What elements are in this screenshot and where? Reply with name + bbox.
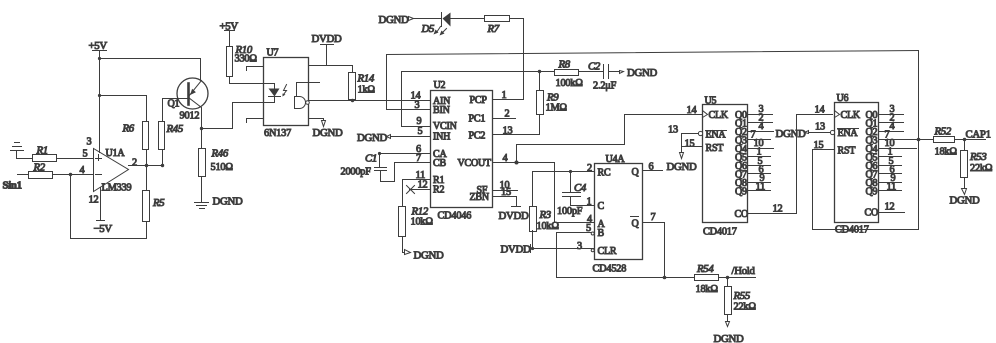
svg-text:12: 12 — [773, 204, 783, 215]
wire D5 to R7 — [451, 18, 485, 20]
pin stub Q4 — [748, 148, 774, 150]
node R14 output — [351, 99, 354, 102]
pin stub Q2 to DGND — [748, 131, 774, 133]
svg-text:C1: C1 — [365, 153, 377, 165]
svg-text:VCOUT: VCOUT — [458, 158, 492, 169]
svg-text:13: 13 — [815, 122, 825, 133]
wire +5V rail to Q1 emitter — [100, 59, 201, 81]
svg-text:U4A: U4A — [606, 154, 626, 165]
svg-text:R7: R7 — [487, 23, 500, 35]
svg-text:3: 3 — [577, 241, 582, 252]
svg-text:22kΩ: 22kΩ — [734, 302, 757, 313]
op-amp U1A — [94, 148, 132, 194]
svg-text:DGND: DGND — [776, 128, 806, 140]
svg-text:DGND: DGND — [667, 161, 697, 173]
node R53 junction — [963, 138, 966, 141]
svg-text:PC2: PC2 — [469, 131, 486, 142]
wire opto GND pin — [309, 118, 324, 120]
wire +5V down to pin3 — [99, 51, 101, 153]
pin stub Q5 — [748, 156, 771, 158]
svg-text:CLK: CLK — [841, 110, 861, 121]
ground DGND at R12 — [403, 250, 444, 262]
svg-text:3: 3 — [87, 137, 92, 148]
node +5V emitter branch — [98, 57, 101, 60]
svg-text:DVDD: DVDD — [312, 33, 342, 45]
svg-text:11: 11 — [887, 182, 897, 193]
svg-text:18kΩ: 18kΩ — [935, 147, 958, 158]
pin stub Q9 U6 — [879, 190, 902, 192]
svg-text:100kΩ: 100kΩ — [556, 78, 584, 89]
pin stub enable right — [309, 82, 320, 84]
wire right side down to RST loop — [813, 51, 919, 230]
wire down to BIN — [387, 55, 431, 110]
svg-text:CO: CO — [735, 209, 749, 220]
wire A input from VCOUT — [555, 222, 595, 224]
svg-text:Sin1: Sin1 — [3, 180, 22, 192]
resistor R6 — [122, 122, 149, 150]
svg-text:R46: R46 — [211, 148, 229, 160]
svg-text:15: 15 — [685, 139, 695, 150]
wire DGND to D5 — [414, 18, 442, 20]
svg-text:CAP1: CAP1 — [966, 129, 991, 141]
svg-text:R3: R3 — [539, 209, 552, 221]
wire ENA RST to ground — [682, 134, 703, 153]
wire R54 to Hold — [719, 277, 756, 279]
svg-text:LM339: LM339 — [102, 183, 132, 194]
wire R10 to opto anode — [230, 77, 264, 84]
wire Qbar down to hold net — [643, 223, 665, 278]
svg-text:DGND: DGND — [313, 127, 343, 139]
wire hold net bottom — [557, 277, 695, 279]
resistor R52 — [934, 126, 958, 158]
wire B input to hold net — [557, 233, 595, 278]
wire op-amp output — [129, 165, 163, 167]
ground (earth) at input — [11, 143, 24, 159]
wire INH to DGND — [357, 132, 431, 144]
wire CB — [395, 162, 431, 164]
LED inside U7 — [264, 84, 281, 103]
svg-text:15: 15 — [814, 140, 824, 151]
wire feedback down and across — [71, 175, 147, 239]
pin stub PC1 — [493, 118, 516, 120]
pin stub PC2 — [493, 134, 531, 136]
power +5V — [89, 40, 108, 52]
svg-text:Q: Q — [632, 167, 640, 178]
svg-text:12: 12 — [418, 180, 428, 191]
svg-text:1MΩ: 1MΩ — [546, 103, 568, 114]
wire VDD pin to R14 — [309, 65, 353, 67]
wire R2 to pin4 — [53, 174, 94, 176]
svg-text:2: 2 — [505, 109, 510, 120]
wire R52 to CAP1 — [955, 139, 986, 141]
svg-text:ENA: ENA — [838, 128, 859, 139]
wire RC pin to R3 — [533, 172, 595, 207]
svg-text:4: 4 — [80, 165, 85, 176]
detector gate inside U7 — [295, 83, 310, 109]
svg-text:330Ω: 330Ω — [235, 54, 258, 65]
svg-text:7: 7 — [651, 212, 656, 223]
svg-text:CD4017: CD4017 — [835, 225, 869, 236]
node DGND label top — [379, 14, 414, 26]
svg-text:12: 12 — [885, 202, 895, 213]
svg-text:CO: CO — [865, 208, 879, 219]
wire VCOUT output — [493, 162, 555, 164]
svg-text:−5V: −5V — [94, 223, 113, 235]
svg-text:2: 2 — [132, 158, 137, 169]
pin stub Q7 U6 — [879, 173, 902, 175]
resistor R14 — [349, 66, 376, 101]
power DVDD at ZBN — [493, 191, 529, 223]
svg-text:R54: R54 — [696, 263, 714, 275]
power +5V at R10 — [220, 21, 239, 33]
wire R45 bottom to output wire — [162, 151, 164, 166]
resistor R55 — [725, 278, 757, 322]
node Qbar junction — [663, 276, 667, 280]
node R9 top — [538, 70, 541, 73]
pin bubble B — [591, 232, 594, 235]
svg-text:B: B — [598, 228, 605, 239]
svg-text:C: C — [598, 201, 605, 212]
svg-text:4: 4 — [890, 121, 895, 132]
svg-text:U1A: U1A — [106, 148, 126, 159]
resistor R1 — [33, 145, 57, 162]
svg-text:10kΩ: 10kΩ — [411, 217, 434, 228]
pin stub Q0 U6 — [879, 114, 904, 116]
wire R5 top to output wire — [146, 166, 148, 191]
wire R6 bottom to output wire — [146, 151, 148, 166]
svg-text:14: 14 — [687, 105, 697, 116]
svg-text:4: 4 — [759, 121, 764, 132]
svg-text:CLK: CLK — [709, 110, 729, 121]
wire +5V rail to R6 — [100, 96, 147, 122]
svg-text:R8: R8 — [558, 59, 571, 71]
node DGND shared U4A/U5 — [667, 153, 697, 174]
pin bubble ENA U6 — [830, 130, 834, 134]
svg-text:U6: U6 — [837, 93, 849, 104]
svg-text:510Ω: 510Ω — [211, 162, 234, 173]
opto U7 6N137 — [264, 48, 309, 140]
svg-text:PCP: PCP — [470, 95, 488, 106]
svg-text:DGND: DGND — [950, 195, 980, 207]
wire VCOUT to U4A A — [555, 163, 595, 223]
svg-text:DGND: DGND — [627, 67, 657, 79]
svg-text:R45: R45 — [166, 123, 184, 135]
wire PCP stub — [493, 99, 524, 101]
node collector junction — [200, 127, 203, 130]
lightning arrow inside U7 — [283, 85, 287, 97]
wire RST U6 — [813, 149, 835, 151]
pin stub Q2 U6 — [879, 131, 904, 133]
wire ENA to DGND label — [809, 132, 831, 134]
diode D5 — [421, 13, 451, 36]
svg-text:5: 5 — [83, 149, 88, 160]
svg-text:Q9: Q9 — [735, 187, 747, 198]
svg-text:RST: RST — [838, 146, 856, 157]
node R55 junction — [726, 276, 729, 279]
svg-text:CD4017: CD4017 — [703, 227, 737, 238]
node VCOUT junction — [515, 161, 519, 165]
svg-text:D5: D5 — [421, 23, 435, 35]
pin bubble CLR — [591, 249, 594, 252]
capacitor C2 — [579, 61, 617, 92]
node DGND between counters — [776, 128, 809, 140]
node output R45 — [161, 164, 164, 167]
resistor R3 — [530, 207, 560, 249]
transistor Q1 — [168, 78, 209, 129]
IC U6 CD4017 — [835, 93, 879, 236]
svg-text:C2: C2 — [588, 61, 601, 73]
svg-text:PC1: PC1 — [469, 114, 486, 125]
svg-text:R53: R53 — [969, 151, 987, 163]
svg-text:U2: U2 — [434, 80, 446, 91]
wire CO to U6 CLK — [748, 115, 833, 214]
svg-text:ZBN: ZBN — [470, 192, 489, 203]
svg-text:100pF: 100pF — [557, 206, 583, 217]
node +5V R6 branch — [98, 94, 101, 97]
wire loop filter node — [402, 71, 555, 73]
svg-text:Q: Q — [632, 219, 640, 230]
svg-text:R1: R1 — [36, 145, 48, 157]
svg-text:18kΩ: 18kΩ — [696, 284, 719, 295]
ground DGND arrow at U7 — [313, 119, 343, 140]
resistor R12 — [399, 206, 434, 253]
svg-text:U7: U7 — [267, 48, 279, 59]
svg-text:5: 5 — [418, 126, 423, 137]
wire R1 to pin5 — [57, 158, 94, 160]
svg-text:R14: R14 — [357, 73, 375, 85]
svg-text:CLR: CLR — [598, 246, 617, 257]
pin bubble ENA U5 — [698, 131, 702, 135]
svg-text:RC: RC — [598, 168, 611, 179]
wire VCOUT to U5 CLK — [517, 115, 703, 163]
node C4 top — [569, 170, 572, 173]
pin stub R2 with no-connect — [407, 186, 431, 194]
svg-text:BIN: BIN — [433, 105, 450, 116]
svg-text:DVDD: DVDD — [499, 210, 529, 222]
ground DGND at R55 — [714, 322, 744, 343]
pin stub Q9 — [748, 190, 771, 192]
svg-text:14: 14 — [815, 105, 825, 116]
wire opto output VO to U2 AIN — [309, 100, 431, 102]
pin stub Q7 — [748, 173, 771, 175]
wire collector to opto cathode — [202, 103, 233, 129]
svg-text:3: 3 — [415, 100, 420, 111]
svg-text:2: 2 — [587, 163, 592, 174]
pin stub CO U6 — [879, 212, 905, 214]
svg-text:R6: R6 — [122, 123, 135, 135]
pin stub Q5 U6 — [879, 156, 902, 158]
svg-text:CB: CB — [433, 158, 446, 169]
resistor R2 — [29, 162, 53, 179]
pin stub Q1 U6 — [879, 122, 904, 124]
power -5V — [94, 188, 113, 236]
wire top long net U6-Q3 to U2 AIN — [387, 51, 919, 55]
svg-text:CD4046: CD4046 — [438, 211, 472, 222]
wire Sin1 to R2 — [18, 174, 29, 176]
pin stub Q1 — [748, 122, 773, 124]
svg-text:DGND: DGND — [414, 250, 444, 262]
wire ground to R1 — [17, 158, 33, 160]
power DVDD at CLR — [501, 244, 531, 256]
svg-text:DGND: DGND — [357, 132, 387, 144]
power DVDD at U7 — [312, 33, 342, 66]
resistor R9 — [531, 72, 568, 135]
resistor R5 — [143, 191, 166, 222]
svg-text:Q1: Q1 — [168, 99, 180, 110]
pin stub Q3 — [748, 139, 771, 141]
node R3 bottom — [531, 247, 534, 250]
wire Q to DGND label — [643, 170, 663, 172]
svg-text:DGND: DGND — [714, 333, 744, 343]
svg-text:R2: R2 — [33, 162, 46, 174]
capacitor C4 — [557, 172, 595, 218]
ground DGND at R46 — [195, 196, 243, 209]
svg-text:R55: R55 — [733, 290, 751, 302]
svg-text:22kΩ: 22kΩ — [970, 163, 993, 174]
svg-text:R2: R2 — [433, 185, 444, 196]
pin stub NC top-left — [247, 67, 264, 71]
resistor R8 — [555, 59, 584, 90]
svg-text:INH: INH — [433, 132, 450, 143]
svg-text:DVDD: DVDD — [501, 244, 531, 256]
svg-text:RST: RST — [706, 143, 724, 154]
svg-text:R5: R5 — [152, 197, 165, 209]
pin stub Q8 U6 — [879, 182, 902, 184]
svg-text:2000pF: 2000pF — [341, 167, 372, 178]
wire R7 to U2 PCP — [510, 19, 524, 100]
svg-text:11: 11 — [756, 182, 766, 193]
svg-text:CD4528: CD4528 — [593, 264, 627, 275]
svg-text:DGND: DGND — [379, 14, 409, 26]
svg-text:DGND: DGND — [213, 196, 243, 208]
pin stub Q8 — [748, 182, 771, 184]
svg-text:13: 13 — [668, 125, 678, 136]
wire R1 pin to R12 — [403, 180, 431, 207]
pin stub Q6 U6 — [879, 165, 902, 167]
svg-text:12: 12 — [89, 195, 99, 206]
svg-text:ENA: ENA — [706, 130, 727, 141]
capacitor C1 — [341, 152, 395, 182]
resistor R54 — [695, 263, 719, 295]
svg-text:/Hold: /Hold — [732, 265, 756, 277]
svg-text:9012: 9012 — [180, 111, 200, 122]
wire C2 to DGND — [609, 67, 658, 79]
wire Q3 U6 to R52 — [879, 139, 934, 141]
wire R45 top to Q1 base — [163, 99, 188, 122]
node at inverting input — [69, 173, 72, 176]
wire +5V to R10 — [229, 31, 231, 47]
pin stub Q6 — [748, 165, 771, 167]
ground DGND at R53 — [950, 189, 980, 207]
IC U2 CD4046 — [431, 80, 493, 222]
pin stub Q4 U6 — [879, 148, 917, 150]
svg-text:1kΩ: 1kΩ — [358, 85, 376, 96]
resistor R45 — [159, 122, 184, 150]
wire VCIN up to loop filter — [402, 72, 431, 127]
resistor R7 — [485, 16, 510, 36]
IC U4A CD4528 — [593, 154, 643, 275]
pin stub NC bottom-left — [247, 119, 264, 123]
svg-text:U5: U5 — [705, 96, 717, 107]
node output R6 — [145, 164, 148, 167]
svg-text:C4: C4 — [574, 182, 587, 194]
svg-text:2.2μF: 2.2μF — [593, 81, 617, 92]
pin stub Q0 — [748, 114, 773, 116]
resistor R53 — [961, 140, 993, 189]
node Q3 feedback junction — [917, 138, 921, 142]
resistor R46 — [199, 129, 234, 203]
svg-text:R52: R52 — [934, 126, 952, 138]
wire opto cathode pin — [233, 102, 264, 104]
wire CLR to DVDD — [531, 248, 595, 250]
wire CA — [380, 153, 431, 155]
resistor R10 — [227, 44, 258, 77]
IC U5 CD4017 — [703, 96, 749, 238]
svg-text:6N137: 6N137 — [264, 128, 291, 139]
svg-text:VCIN: VCIN — [433, 121, 457, 132]
svg-text:Q9: Q9 — [866, 187, 878, 198]
